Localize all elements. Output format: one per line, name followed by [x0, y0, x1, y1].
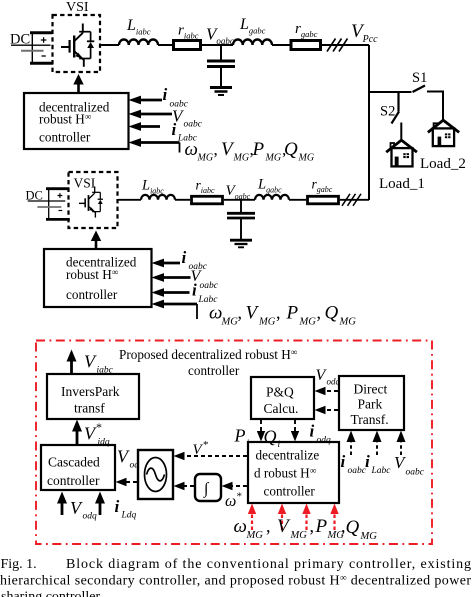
svg-text:sharing controller.: sharing controller. — [1, 590, 103, 597]
red dashed arrow P_MG into decentralized — [302, 504, 310, 531]
svg-text:i: i — [115, 497, 120, 516]
label omega_MG V_MG P_MG Q_MG (row 2) — [209, 303, 339, 324]
svg-text:i: i — [192, 281, 197, 300]
svg-text:P: P — [315, 516, 328, 537]
svg-text:transf: transf — [74, 401, 105, 416]
svg-text:Fig. 1.: Fig. 1. — [1, 557, 37, 572]
svg-text:Calcu.: Calcu. — [264, 401, 299, 416]
DC source 2 battery — [28, 189, 70, 220]
output arrow V_iabc (exits box upward) — [67, 350, 77, 375]
transistor Q1 (IGBT of VSI 1) — [61, 24, 94, 67]
svg-text:MG: MG — [258, 317, 276, 328]
VSI inverter 2 dashed box — [69, 172, 118, 228]
dashed arrow V_oabc into Direct Park — [397, 431, 406, 456]
red dashed arrow V_MG into decentralized — [278, 504, 286, 531]
input arrow i_oabc (controller 2) — [152, 259, 181, 268]
wire r_gabc to bus (row 2) — [340, 199, 369, 201]
inductor L_gabc (row 1) — [233, 40, 272, 46]
svg-text:controller: controller — [188, 363, 240, 378]
red dashed arrow Q_MG into decentralized — [330, 504, 338, 531]
wire r to L_g (row 1) — [202, 44, 233, 46]
svg-text:oabc: oabc — [406, 468, 425, 478]
resistor r_gabc (row 1) — [291, 41, 321, 50]
svg-text:S1: S1 — [412, 70, 427, 86]
Load_1 house icon — [387, 140, 416, 166]
svg-text:VSI: VSI — [74, 176, 96, 191]
block: Cascaded controller — [41, 445, 115, 490]
svg-text:Q: Q — [325, 303, 339, 324]
three-phase slash marks (row 1) — [327, 39, 348, 52]
svg-text:Load_2: Load_2 — [420, 156, 466, 172]
svg-text:Labc: Labc — [371, 466, 392, 476]
svg-text:MG: MG — [246, 530, 264, 541]
block: P&Q Calcu. — [251, 377, 314, 419]
wire r to L_g (row 2) — [224, 199, 255, 201]
block: InversPark transf — [47, 374, 139, 419]
svg-text:Q: Q — [264, 427, 277, 447]
svg-text:oabc: oabc — [348, 466, 367, 476]
svg-text:VSI: VSI — [66, 0, 89, 15]
svg-text:decentralize: decentralize — [256, 448, 320, 463]
DC source 1 battery — [11, 33, 53, 64]
input arrow V_oabc (controller 2) — [152, 273, 191, 282]
svg-text:hierarchical secondary control: hierarchical secondary controller, and p… — [0, 573, 471, 589]
resistor r_gabc (row 2) — [308, 196, 339, 204]
arrow Cascaded controller to InversPark — [72, 420, 82, 446]
transistor Q2 (IGBT of VSI 2) — [79, 186, 103, 217]
svg-text:controller: controller — [264, 484, 316, 499]
svg-text:,: , — [214, 140, 218, 159]
svg-text:MG: MG — [299, 317, 317, 328]
svg-text:ω: ω — [234, 516, 247, 537]
svg-text:Direct: Direct — [354, 382, 388, 397]
svg-text:InversPark: InversPark — [61, 384, 120, 399]
svg-text:i: i — [365, 452, 370, 471]
load branch wire — [369, 91, 412, 93]
svg-text:i: i — [341, 452, 346, 471]
PCC bus vertical wire — [368, 45, 370, 200]
input arrow i_Ldq (into Cascaded bottom) — [95, 492, 105, 516]
svg-text:i: i — [278, 440, 281, 450]
svg-text:,: , — [238, 303, 243, 323]
svg-text:,: , — [276, 303, 281, 323]
svg-text:,: , — [317, 303, 322, 323]
block: Direct Park Transf. — [339, 376, 404, 430]
input arrow V_oabc (controller 1) — [129, 110, 173, 119]
svg-text:P: P — [286, 303, 299, 324]
inductor L_gabc (row 2) — [255, 195, 289, 200]
input arrow i_oabc (controller 1) — [129, 96, 163, 105]
label omega_MG V_MG P_MG Q_MG (secondary inputs) — [234, 516, 360, 538]
wire r_gabc to PCC bus (row 1) — [322, 44, 369, 46]
svg-text:d robust H∞: d robust H∞ — [254, 466, 316, 481]
dashed arrow integrator to oscillator — [174, 482, 195, 490]
svg-text:i: i — [172, 120, 177, 139]
red dashed arrow omega_MG into decentralized — [248, 504, 256, 531]
block: integrator — [195, 474, 221, 501]
wire L to r (row 2) — [175, 199, 190, 201]
wire S1 to Load_2 — [427, 92, 443, 122]
input arrow i_Labc (controller 1) — [129, 122, 161, 131]
svg-text:,: , — [310, 516, 315, 536]
three-phase slash marks (row 2) — [342, 194, 361, 206]
svg-text:ω: ω — [185, 139, 198, 160]
svg-text:MG: MG — [298, 153, 315, 164]
svg-text:Transf.: Transf. — [351, 412, 389, 427]
svg-text:i: i — [310, 422, 315, 441]
svg-text:,: , — [341, 516, 346, 536]
ground (row 2) — [230, 240, 252, 247]
svg-text:P&Q: P&Q — [266, 385, 294, 400]
VSI inverter 1 dashed box — [53, 15, 101, 72]
inductor L_iabc (row 2) — [141, 195, 175, 200]
wire L to r (row 1) — [158, 44, 172, 46]
wire L_g to r_g (row 1) — [272, 44, 290, 46]
arrow controller 1 to VSI 1 — [73, 74, 83, 93]
capacitor C2 (row 2 filter) — [227, 200, 255, 239]
svg-text:Load_1: Load_1 — [379, 176, 425, 192]
resistor r_iabc (row 2) — [192, 196, 223, 204]
svg-text:,: , — [250, 140, 254, 159]
dashed arrow Direct Park to P&Q (upper) — [315, 387, 339, 395]
svg-text:,: , — [266, 516, 271, 536]
dashed arrow P_i (P&Q to decentralized) — [257, 420, 265, 442]
block: decentralized robust H-inf controller (proposed) — [248, 442, 339, 503]
block: voltage source oscillator — [138, 450, 173, 499]
svg-text:Block diagram of the conventio: Block diagram of the conventional primar… — [66, 557, 471, 572]
svg-text:odq: odq — [317, 436, 332, 446]
Load_2 house icon — [429, 120, 458, 146]
svg-text:Ldq: Ldq — [121, 511, 137, 521]
svg-text:MG: MG — [265, 153, 282, 164]
svg-text:Cascaded: Cascaded — [48, 455, 100, 470]
input arrow secondary signals (controller 1) — [129, 138, 180, 152]
controller 1 box: decentralized robust H-inf controller — [24, 93, 129, 149]
svg-text:MG: MG — [360, 531, 378, 542]
input arrow V_odq (into Cascaded bottom) — [57, 492, 67, 516]
svg-text:ω: ω — [225, 493, 236, 510]
svg-text:i: i — [182, 248, 187, 267]
svg-text:robust H∞: robust H∞ — [66, 267, 118, 282]
svg-text:S2: S2 — [380, 104, 395, 120]
ground (row 1) — [210, 88, 232, 96]
svg-text:controller: controller — [47, 473, 100, 488]
dashed arrow i_Labc into Direct Park — [373, 431, 382, 456]
label omega_MG V_MG P_MG Q_MG (row 1) — [185, 139, 299, 160]
svg-text:oabc: oabc — [184, 120, 203, 130]
svg-text:MG: MG — [233, 153, 250, 164]
svg-text:controller: controller — [66, 287, 118, 302]
dashed arrow V* (decentralized to oscillator) — [174, 452, 248, 460]
svg-text:robust H∞: robust H∞ — [39, 112, 91, 127]
svg-text:i: i — [247, 439, 250, 449]
inductor L_iabc (row 1) — [119, 40, 158, 46]
dashed arrow Direct Park to P&Q (lower) — [315, 406, 339, 414]
switch S2 — [392, 92, 400, 124]
svg-text:,: , — [282, 140, 286, 159]
svg-text:*: * — [96, 420, 102, 434]
dashed arrow Q_i (P&Q to decentralized) — [291, 420, 299, 442]
wire S2 to Load_1 — [400, 123, 402, 142]
svg-text:oabc: oabc — [200, 281, 219, 291]
svg-text:MG: MG — [197, 153, 214, 164]
wire L_g to r_g (row 2) — [289, 199, 306, 201]
svg-text:MG: MG — [221, 317, 239, 328]
arrow controller 2 to VSI 2 — [91, 231, 101, 250]
svg-text:odq: odq — [83, 512, 98, 522]
svg-text:Park: Park — [358, 397, 383, 412]
wire VSI1 output — [100, 44, 119, 46]
dashed arrow oscillator to Cascaded controller — [116, 478, 138, 486]
svg-text:MG: MG — [290, 530, 308, 541]
input arrow secondary signals (controller 2) — [152, 300, 198, 319]
svg-text:odq: odq — [327, 377, 341, 387]
svg-text:Q: Q — [346, 517, 360, 538]
svg-text:*: * — [203, 439, 209, 451]
svg-text:i: i — [163, 85, 168, 104]
svg-text:controller: controller — [39, 130, 91, 145]
svg-text:P: P — [234, 426, 246, 446]
svg-text:Proposed decentralized robust: Proposed decentralized robust H∞ — [119, 347, 297, 362]
proposed controller red dash-dot boundary box — [36, 341, 432, 545]
svg-text:MG: MG — [339, 317, 357, 328]
dashed arrow i_oabc into Direct Park — [347, 431, 356, 456]
input arrow i_Labc (controller 2) — [152, 288, 190, 297]
capacitor C1 (row 1 filter) — [207, 45, 235, 86]
svg-text:*: * — [237, 491, 243, 503]
wire VSI2 output — [118, 199, 142, 201]
dashed arrow omega* (decentralized to integrator) — [222, 482, 248, 490]
controller 2 box: decentralized robust H-inf controller — [44, 249, 152, 307]
svg-text:ω: ω — [209, 303, 222, 324]
resistor r_iabc (row 1) — [174, 41, 201, 50]
switch S1 — [413, 86, 426, 93]
